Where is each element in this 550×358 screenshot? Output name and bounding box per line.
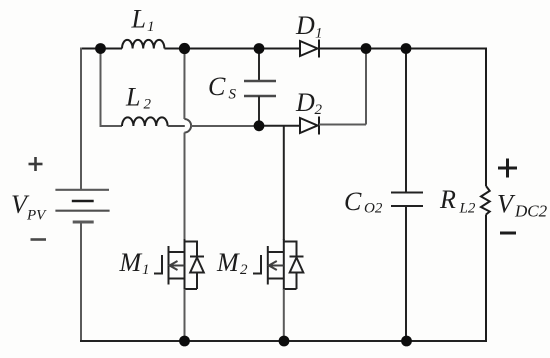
M1 gate lead — [154, 255, 162, 274]
svg-text:R: R — [439, 185, 456, 214]
wire from node F to D2 — [259, 125, 300, 127]
label M1 — [119, 248, 150, 278]
wire vertical riser from D2 up to node D — [365, 49, 367, 125]
svg-text:2: 2 — [315, 102, 323, 118]
svg-text:D: D — [295, 88, 315, 117]
label L1 — [131, 5, 155, 36]
label D2 — [295, 88, 323, 118]
diode D2 — [300, 117, 319, 135]
M2 gate bar — [267, 246, 269, 285]
M1 main source-drain vertical — [184, 239, 186, 290]
M1 top horizontal to body diode branch — [185, 241, 198, 243]
junction node A on top rail — [95, 43, 106, 54]
svg-text:L2: L2 — [459, 201, 476, 217]
wire vertical from M2 drain junction down to M2 — [283, 126, 285, 241]
resistor RL2 zigzag — [481, 186, 490, 215]
M2 body diode cathode bar — [290, 256, 304, 258]
wire top rail segment from left corner to L1 — [81, 48, 122, 50]
junction node G bottom rail at M1 source — [179, 336, 190, 347]
label CO2 — [344, 187, 383, 217]
M1 substrate arrow — [170, 261, 185, 270]
svg-text:M: M — [216, 248, 240, 277]
wire crossover hop of vertical wire around L2 output wire — [184, 119, 191, 133]
wire right vertical from RL2 down to bottom right corner — [485, 215, 487, 343]
M2 top horizontal to body diode branch — [284, 241, 297, 243]
M2 body diode cathode lead — [296, 241, 298, 257]
svg-text:O2: O2 — [364, 201, 383, 217]
battery negative sign — [31, 238, 47, 241]
junction node I bottom rail at CO2 — [401, 336, 412, 347]
M1 body diode cathode lead — [196, 241, 198, 257]
wire vertical from hop down to M1 — [184, 133, 186, 241]
inductor L1 — [122, 40, 164, 49]
svg-text:2: 2 — [240, 262, 248, 278]
output positive sign — [498, 159, 517, 178]
wire from L2 to crossover hop — [168, 125, 185, 127]
transistor M1 with body diode — [154, 239, 204, 290]
svg-text:C: C — [344, 187, 362, 216]
M1 body diode anode lead — [196, 273, 198, 290]
M2 main source-drain vertical — [283, 239, 285, 290]
svg-text:S: S — [229, 87, 237, 103]
label D1 — [295, 11, 323, 42]
capacitor CO2 plates — [391, 193, 423, 207]
M2 drain contact — [268, 251, 284, 253]
M2 body diode anode lead — [296, 273, 298, 290]
svg-text:M: M — [119, 248, 143, 277]
svg-text:V: V — [497, 190, 516, 219]
M1 source contact — [169, 278, 185, 280]
svg-text:DC2: DC2 — [514, 202, 548, 221]
M1 body diode triangle — [190, 258, 204, 273]
M1 bottom horizontal from body diode branch — [185, 288, 198, 290]
capacitor CS plates — [244, 81, 276, 96]
battery positive sign — [29, 157, 43, 171]
junction node D top rail at D2 riser — [361, 43, 372, 54]
capacitor CO2 bottom lead — [405, 206, 407, 341]
battery VPV — [55, 190, 109, 222]
wire vertical from node B down to M1 drain (upper part above hop) — [183, 49, 185, 120]
output negative sign — [500, 232, 516, 235]
svg-text:L: L — [131, 5, 146, 34]
junction node H bottom rail at M2 source — [279, 336, 290, 347]
svg-text:D: D — [295, 11, 315, 40]
M1 body diode cathode bar — [190, 256, 204, 258]
capacitor CO2 top lead — [405, 49, 407, 193]
junction node B top rail at L1 output — [179, 43, 190, 54]
junction node E top rail at CO2 — [401, 43, 412, 54]
svg-text:2: 2 — [144, 97, 152, 113]
wire M1 source down to bottom rail — [184, 289, 186, 341]
svg-text:PV: PV — [26, 208, 47, 224]
svg-text:1: 1 — [147, 19, 155, 35]
label M2 — [216, 248, 248, 278]
M2 gate lead — [253, 255, 261, 274]
wire from D2 cathode to vertical riser — [319, 124, 366, 126]
wire left vertical from top rail down to battery — [80, 48, 82, 190]
label L2 — [125, 83, 152, 113]
M1 drain contact — [169, 251, 185, 253]
M2 body diode triangle — [290, 258, 304, 273]
svg-text:1: 1 — [142, 262, 150, 278]
M2 source contact — [268, 278, 284, 280]
diode D1 — [300, 40, 319, 58]
wire right vertical from top right corner down to RL2 — [485, 48, 487, 187]
wire top rail segment from L1 to D1 — [164, 48, 300, 50]
wire from hop to node F — [191, 125, 259, 127]
M2 substrate arrow — [269, 261, 284, 270]
label VPV — [11, 190, 47, 224]
wire M2 source down to bottom rail — [283, 289, 285, 341]
capacitor CS top lead — [258, 49, 260, 81]
wire left vertical from battery to bottom rail — [80, 222, 82, 342]
junction node C top rail at CS — [254, 43, 265, 54]
transistor M2 with body diode — [253, 239, 304, 290]
svg-text:L: L — [125, 83, 140, 112]
label RL2 — [439, 185, 476, 217]
inductor L2 — [122, 117, 168, 126]
wire vertical from node A down to L2 — [101, 49, 123, 127]
label CS — [208, 72, 237, 103]
M2 bottom horizontal from body diode branch — [284, 288, 297, 290]
svg-text:C: C — [208, 72, 226, 101]
M1 gate bar — [168, 246, 170, 285]
capacitor CS bottom lead — [258, 96, 260, 126]
wire bottom rail — [80, 340, 487, 342]
junction node F at CS bottom and L2 output — [254, 120, 265, 131]
label VDC2 — [497, 190, 548, 221]
svg-text:1: 1 — [315, 26, 323, 42]
wire top rail segment from D1 to top right corner — [319, 48, 486, 50]
